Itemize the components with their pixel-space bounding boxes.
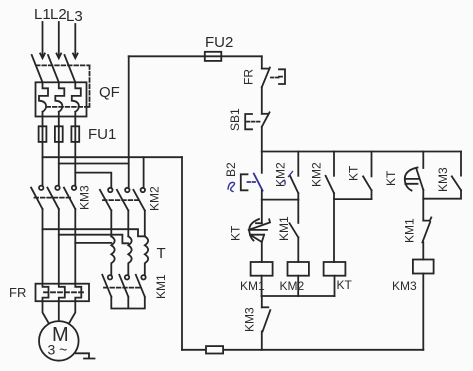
wire control return left vertical — [181, 157, 183, 350]
svg-text:KM3: KM3 — [392, 279, 417, 293]
relay FR heater 1 — [43, 284, 49, 302]
wire KT coil to bus — [334, 276, 336, 296]
coil KM2 — [288, 262, 309, 276]
svg-text:L1: L1 — [34, 6, 51, 23]
wire KM3 coil to bottom rail — [422, 274, 424, 350]
button SB1 NC stop — [262, 113, 269, 115]
wire tap down to KM2 pole 3 — [143, 157, 145, 187]
fuse FU1 element 1 — [39, 126, 47, 142]
button SB2 blue scribble — [228, 182, 235, 191]
svg-text:FR: FR — [242, 69, 256, 85]
wire junction branch1-branch2 — [262, 199, 299, 201]
motor M circle — [39, 321, 79, 361]
wire KM3 pole3 output down to FR — [74, 209, 76, 284]
svg-text:L3: L3 — [66, 8, 83, 25]
contact KT NO (branch4) — [371, 152, 373, 177]
breaker QF pole 2 blade — [48, 55, 59, 82]
timer KT delayed funnel — [250, 235, 264, 242]
wire FR to motor 3 — [69, 301, 75, 323]
svg-text:KT: KT — [347, 165, 361, 181]
breaker QF pole 3 blade — [65, 55, 76, 82]
wire L3 lead-in — [74, 24, 76, 57]
wire KM3 pole1 output down to FR — [42, 209, 44, 284]
svg-text:3 ~: 3 ~ — [48, 342, 68, 358]
button SB2 actuator — [241, 174, 248, 190]
fuse FU1 wire through 3 — [74, 126, 76, 142]
contact KM1 NO (branch2) — [297, 200, 299, 223]
contact KM3 NO (branch6) — [460, 152, 462, 176]
contactor KM3 power pole 1 — [39, 186, 43, 190]
wire FR to motor 1 — [43, 301, 49, 323]
timer KT NC delayed-opening contact (branch1) — [261, 200, 263, 224]
relay FR NC contact dashes — [271, 77, 279, 79]
wire motor line1 tap to winding 3 top — [43, 229, 145, 236]
svg-text:KM2: KM2 — [148, 186, 162, 211]
timer KT delayed blade — [249, 219, 270, 230]
transformer T winding 1 — [111, 236, 114, 275]
timer KT branch5 chords — [405, 179, 419, 184]
breaker QF box — [36, 82, 87, 116]
wire branch1 rail to SB2 — [261, 152, 263, 173]
wire FR contact to SB1 — [261, 87, 263, 114]
wire FU2 feed top — [129, 55, 205, 57]
breaker QF pole 3 release — [72, 82, 81, 116]
wire KT branch5 bottom — [422, 190, 424, 199]
wire distribution bus 2 (phase2 to FU2 riser) — [59, 163, 129, 165]
wire distribution bus 1 (phase1 to KM2 pole3 and control return) — [43, 156, 183, 158]
breaker QF dashed trip line — [47, 106, 90, 108]
contact KM1 NC (branch5 lower) — [422, 199, 424, 221]
svg-text:KM3: KM3 — [243, 307, 257, 332]
coil KT — [324, 262, 346, 276]
svg-text:T: T — [157, 245, 166, 262]
contactor KM2 power pole 2 — [125, 188, 129, 192]
wire KM3 pole2 output down to FR — [58, 209, 60, 284]
wire phase2 FU1 to KM3 contact — [58, 142, 60, 186]
contactor KM2 power pole 1 — [108, 188, 112, 192]
svg-text:KM1: KM1 — [277, 216, 291, 241]
contact KM2 NO (branch3) — [333, 152, 335, 176]
wire L1 lead-in — [42, 22, 44, 57]
wire KM3 interlock to bottom rail — [261, 331, 263, 349]
fuse FU2 — [205, 52, 222, 61]
svg-text:QF: QF — [99, 84, 120, 101]
button SB2 blue blade — [254, 174, 263, 191]
svg-text:L2: L2 — [50, 6, 67, 23]
wire KT delayed to KM1 coil — [261, 242, 263, 262]
svg-text:FR: FR — [9, 285, 26, 300]
coil KM3 — [413, 260, 434, 274]
svg-text:B2: B2 — [224, 162, 238, 177]
fuse FU1 wire through 2 — [58, 126, 60, 142]
contact KM3 NC interlock (below coils) — [261, 296, 263, 307]
wire FR to motor 2 — [58, 301, 60, 321]
breaker QF dashed linkage top — [36, 64, 90, 66]
fuse FU1 element 3 — [71, 126, 79, 142]
wire QF to FU1 phase 1 — [42, 117, 44, 127]
breaker QF pole 2 release — [55, 82, 64, 116]
contactor KM1 power pole 3 — [141, 275, 145, 279]
wire control bottom rail — [182, 349, 423, 351]
svg-text:FU1: FU1 — [88, 126, 116, 143]
transformer T winding 2 — [128, 236, 131, 275]
svg-text:KM3: KM3 — [78, 185, 92, 210]
svg-text:SB1: SB1 — [228, 108, 242, 131]
svg-text:KT: KT — [229, 225, 243, 241]
svg-text:KM2: KM2 — [310, 162, 324, 187]
wire KM2 pole1 output to winding1 — [110, 211, 112, 237]
fuse FU2 wire through — [205, 55, 262, 57]
wire phase1 FU1 to KM3 contact — [42, 142, 44, 186]
wire KM3 branch6 bottom and join — [423, 190, 461, 199]
svg-text:FU2: FU2 — [205, 34, 233, 51]
relay FR dashed link — [44, 291, 84, 293]
wire control top rail — [262, 151, 461, 153]
svg-text:KT: KT — [337, 278, 353, 292]
wire FU2 to FR contact — [261, 56, 263, 68]
transformer T winding 3 — [145, 236, 148, 275]
wire QF to FU1 phase 2 — [58, 117, 60, 127]
fuse FU1 wire through 1 — [42, 126, 44, 142]
breaker QF dashed linkage right — [89, 65, 91, 107]
wire motor line2 tap to winding 2 — [59, 235, 129, 244]
contactor KM3 power pole 3 — [72, 186, 76, 190]
relay FR thermal element symbol — [279, 69, 285, 84]
svg-text:KT: KT — [384, 170, 398, 186]
wire KM2 pole2 output to winding2 — [127, 211, 129, 237]
contactor KM1 power pole 1 — [108, 275, 112, 279]
wire KM2 self-hold to junction — [297, 193, 299, 199]
wire KM1 contact to KM2 coil — [297, 237, 299, 262]
contactor KM1 power pole 2 — [125, 275, 129, 279]
fuse bottom (unlabeled) — [206, 346, 223, 353]
timer KT delayed chords — [249, 230, 267, 235]
wire KM2 pole3 output to winding3 — [144, 211, 146, 237]
svg-text:KM1: KM1 — [154, 274, 168, 299]
wire coil bottom bus — [262, 295, 335, 297]
wire KT branch4 bottom — [371, 190, 373, 199]
timer KT branch5 arc — [405, 168, 418, 191]
contact KM2 self-hold blue mark — [283, 172, 293, 185]
wire KM1 coil to bus — [261, 276, 263, 296]
relay FR heater box — [36, 284, 90, 302]
button SB1 dashes — [247, 121, 261, 123]
wire KM2 branch3 down and join — [334, 193, 372, 199]
contactor KM1 power dashed linkage — [104, 287, 140, 289]
timer KT delayed arc — [249, 219, 259, 241]
svg-text:KM3: KM3 — [436, 167, 450, 192]
arrow L3 — [73, 54, 78, 59]
wire phase3 FU1 to KM3 contact — [74, 142, 76, 186]
svg-text:KM1: KM1 — [403, 218, 417, 243]
coil KM1 — [251, 262, 273, 276]
contactor KM2 power dashed linkage — [103, 199, 140, 201]
ground symbol — [76, 353, 95, 358]
wire QF to FU1 phase 3 — [74, 117, 76, 127]
breaker QF pole 1 blade — [32, 55, 43, 82]
relay FR heater 3 — [75, 284, 81, 302]
contactor KM3 power dashed linkage — [35, 197, 71, 199]
wire KM1 star point bus — [111, 297, 145, 309]
button SB1 actuator — [245, 114, 252, 129]
relay FR NC contact — [262, 68, 268, 70]
wire branch3 to KT coil — [333, 199, 335, 262]
wire KM1 NC to KM3 coil — [422, 242, 424, 259]
wire SB2 to junction — [261, 191, 263, 200]
wire FU2 riser / KM2 pole 2 feed — [128, 56, 130, 187]
wire L2 lead-in — [58, 22, 60, 57]
breaker QF pole 1 release — [39, 82, 48, 116]
arrow L1 — [40, 54, 45, 59]
contact KM2 NO self-hold (branch2 top) — [297, 152, 299, 176]
relay FR heater 2 — [59, 284, 65, 302]
contactor KM2 power pole 3 — [141, 188, 145, 192]
button SB2 blue dashes — [248, 181, 258, 183]
wire distribution bus 3 (phase3 to KM2 pole 1) — [75, 173, 111, 188]
timer KT NO delayed-closing contact (branch5) — [422, 152, 424, 169]
wire KM2 coil to bus — [297, 276, 299, 296]
wire SB1 to rail — [261, 127, 263, 152]
contactor KM3 power pole 2 — [55, 186, 59, 190]
wire motor line3 tap to winding 1 — [75, 242, 111, 244]
arrow L2 — [57, 54, 62, 59]
fuse FU1 element 2 — [55, 126, 63, 142]
svg-text:KM2: KM2 — [280, 279, 305, 293]
